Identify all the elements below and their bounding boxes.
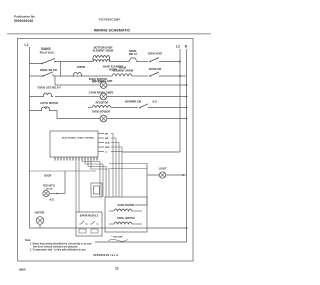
wire link row B to lamp row 1 <box>54 76 56 85</box>
switch bridge contact row D <box>30 93 54 97</box>
label broil switch <box>40 69 58 72</box>
svg-text:ELEMENT 3400W: ELEMENT 3400W <box>113 70 134 73</box>
label bake relay <box>40 47 55 55</box>
svg-text:BR: BR <box>105 138 109 140</box>
pins EOC connector pins <box>55 157 97 161</box>
node junction row A to L2 <box>179 61 181 63</box>
wire lamp box vertical <box>135 164 147 206</box>
svg-text:2585W: 2585W <box>77 66 86 69</box>
lamp oven lamp 3 <box>100 115 107 122</box>
node junction bottom at N <box>186 227 188 229</box>
svg-text:BROIL IGNITOR: BROIL IGNITOR <box>117 218 135 220</box>
svg-text:N.O.: N.O. <box>50 199 55 202</box>
node junction lamp row 1 at N <box>186 84 188 86</box>
svg-text:STYLE: STYLE <box>45 188 53 190</box>
label bottom oven element <box>93 47 114 53</box>
wire L1 branch lower <box>30 170 97 172</box>
svg-text:ELEMENT 2585W: ELEMENT 2585W <box>93 50 114 53</box>
svg-text:OVEN VENT: OVEN VENT <box>148 53 163 56</box>
svg-text:DOOR: DOOR <box>44 175 51 178</box>
wire sensor row middle <box>111 107 138 109</box>
svg-text:L1: L1 <box>25 43 29 47</box>
svg-text:LIGHT: LIGHT <box>159 168 167 171</box>
svg-text:"OVEN LITE RELAY": "OVEN LITE RELAY" <box>37 87 62 90</box>
wire row B right <box>132 75 148 77</box>
switch bridge contact row E <box>30 106 52 111</box>
svg-text:BAKE: BAKE <box>41 47 51 51</box>
svg-text:2. Components tied - in line: 2. Components tied - in line with defini… <box>30 248 86 251</box>
wire row A right <box>139 61 148 63</box>
svg-text:40W OVEN LAMP: 40W OVEN LAMP <box>92 80 113 83</box>
node junction lamp row 3 at N <box>186 118 188 120</box>
header publication text <box>14 15 36 24</box>
svg-text:SPARK MODULE: SPARK MODULE <box>80 215 99 218</box>
svg-text:RESISTOR: RESISTOR <box>96 102 109 105</box>
ignitor box <box>105 197 147 232</box>
wire row B left <box>53 75 112 77</box>
node junction lamp row 2 at N <box>186 96 188 98</box>
lamp oven lamp 1 <box>100 82 107 89</box>
spark module box <box>76 212 102 236</box>
switch row B left <box>30 72 54 77</box>
wire lamp row 3 right <box>107 118 187 120</box>
switch bake relay contact <box>30 59 56 65</box>
motor convection motor <box>34 212 45 229</box>
switch sensor row right <box>139 104 186 108</box>
svg-text:TOD 60T11: TOD 60T11 <box>43 185 56 188</box>
wire step row E to lamp row 3 <box>51 111 100 119</box>
svg-text:N: N <box>185 45 188 49</box>
svg-text:ELECTRONIC OVEN CONTROL: ELECTRONIC OVEN CONTROL <box>62 138 95 140</box>
wire L2 rail <box>122 49 180 152</box>
resistor sensor coil <box>92 106 111 108</box>
svg-text:L2: L2 <box>176 45 180 49</box>
wire lamp row 1 right <box>107 84 187 86</box>
svg-text:WIRING SCHEMATIC: WIRING SCHEMATIC <box>94 29 131 33</box>
svg-text:OVEN SENSOR: OVEN SENSOR <box>92 110 111 113</box>
wire row A middle <box>110 61 127 63</box>
wire pin staircase <box>76 161 109 213</box>
wire EOC stub bus verticals <box>111 134 122 198</box>
switch bridge contact row B mid <box>72 73 83 77</box>
wire lamp row 1 left <box>55 84 100 86</box>
wire row A left <box>55 61 93 63</box>
pins EOC right stubs with labels <box>98 134 104 152</box>
svg-text:DLB: DLB <box>105 143 110 145</box>
label to spark module note <box>108 236 128 242</box>
svg-text:Publication No.: Publication No. <box>14 15 36 19</box>
label bake ignitor text <box>89 78 107 84</box>
svg-text:* see note: * see note <box>111 236 123 239</box>
node junction row B at L2 <box>179 75 181 77</box>
svg-text:RELAY: RELAY <box>129 53 138 56</box>
resistor bake element coils <box>93 56 110 62</box>
op-amp electronic oven control box <box>50 131 98 157</box>
svg-text:BROIL OB SW: BROIL OB SW <box>40 69 58 72</box>
wire sensor row left stub <box>88 107 92 109</box>
svg-text:RELAY (N.O.): RELAY (N.O.) <box>40 52 55 55</box>
connector plug symbol <box>91 183 102 197</box>
svg-text:* MOTOR: * MOTOR <box>34 212 45 215</box>
resistor broil element coil <box>112 74 132 76</box>
svg-text:316080103 rev A: 316080103 rev A <box>93 253 119 257</box>
svg-text:L1: L1 <box>105 152 108 154</box>
label broil relay <box>129 50 138 56</box>
svg-text:N.O.: N.O. <box>153 102 158 104</box>
label stub names <box>105 134 110 154</box>
switch row B right <box>149 72 186 77</box>
label broil element <box>113 67 134 73</box>
svg-text:12: 12 <box>115 267 119 271</box>
schematic border frame <box>18 39 194 262</box>
svg-text:BK: BK <box>105 134 109 136</box>
wire bottom long run to N <box>30 227 187 229</box>
wire lamp row 2 right <box>107 96 187 98</box>
wire L1 rail <box>29 47 31 228</box>
wire lamp row 2 left <box>55 96 100 98</box>
wire N rail <box>95 49 187 242</box>
svg-text:BAKE IGNITOR: BAKE IGNITOR <box>118 204 135 207</box>
lamp oven lamp 2 <box>100 93 107 100</box>
wire link row A to row B <box>60 62 62 77</box>
note text block <box>25 239 92 251</box>
svg-text:DOOR SW: DOOR SW <box>149 68 162 71</box>
switch broil relay contact <box>127 58 139 62</box>
switch row A right <box>149 58 180 63</box>
svg-text:LATCH MOTOR: LATCH MOTOR <box>40 102 58 105</box>
lamp oven light bulb <box>159 172 165 178</box>
svg-text:MDL: MDL <box>105 147 110 149</box>
svg-text:0905: 0905 <box>19 268 26 272</box>
label bake element below <box>103 66 123 72</box>
node junction light at N <box>182 174 184 176</box>
wire lamp row to N <box>147 174 187 176</box>
wire TOD vertical link <box>64 171 66 194</box>
transistor TOD cluster <box>43 185 65 202</box>
svg-text:WARMER SW: WARMER SW <box>125 101 142 104</box>
svg-text:5995394048: 5995394048 <box>14 19 33 23</box>
title rule <box>7 33 211 35</box>
svg-text:FGF355CGBF: FGF355CGBF <box>99 18 121 22</box>
wire long row to lamp box lower <box>109 168 147 170</box>
node junction sensor row at N <box>186 107 188 109</box>
wire long row to lamp box upper <box>109 163 147 165</box>
